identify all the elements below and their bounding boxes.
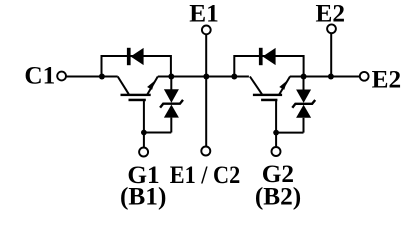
svg-text:(B1): (B1)	[120, 182, 166, 210]
svg-text:E1: E1	[189, 0, 219, 27]
svg-text:E2: E2	[372, 65, 402, 93]
svg-text:(B2): (B2)	[255, 183, 301, 211]
svg-text:E2: E2	[316, 0, 346, 27]
svg-text:C1: C1	[24, 62, 55, 90]
svg-text:E1 / C2: E1 / C2	[170, 161, 241, 189]
